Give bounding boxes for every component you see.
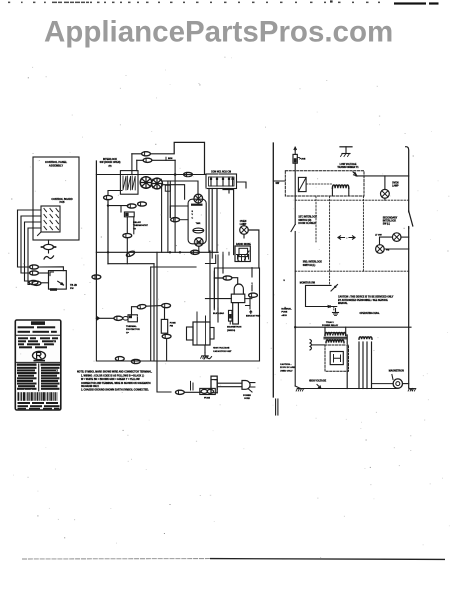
primary coil [325,333,346,336]
magnetron filament box [229,310,233,321]
wire top rail right [356,175,409,177]
coil top leads [332,181,348,189]
svg-text:FM: FM [170,326,173,328]
wire PCB row2 to bundle [21,216,41,273]
svg-text:1ST. INTERLOCK: 1ST. INTERLOCK [298,217,317,219]
wire HV top leads [197,312,206,322]
fuse F1 body [293,154,297,163]
wire circle2 right [384,248,409,250]
nameplate specs block [18,337,28,339]
HV rectifier dashed box [325,345,349,371]
wire H2 down to rail [166,339,168,362]
svg-text:EXHAUST FAN: EXHAUST FAN [246,315,261,318]
wire K2 run [137,159,175,161]
wire strip pin4 stub [228,189,230,194]
wire below fuse [294,163,296,224]
svg-text:ASSEMBLY: ASSEMBLY [49,164,63,168]
junction dot at A1 [174,173,177,176]
wire vertical x161 [161,185,163,253]
fuse right tick [297,157,299,159]
svg-text:OPERATING DIAG.: OPERATING DIAG. [360,312,380,315]
wire vertical x175 [174,160,176,252]
junction dot monitor bottom [329,305,331,307]
secondary drop wires [358,342,360,389]
wire short second lead [133,217,135,234]
svg-text:SWITCH (L): SWITCH (L) [303,265,316,267]
cord terminal fuse box [200,388,216,394]
wire rail y318 to protector [96,317,114,319]
dotted rail y200 [295,199,409,201]
wire drop to cord rail [157,361,171,392]
wire B rail junction [107,204,109,206]
wire G1 to fuse column [146,305,161,308]
ground left HV rail [296,389,304,392]
monitor switch loop [306,285,337,306]
svg-text:PCB: PCB [59,201,64,204]
nameplate table divider vertical [38,363,40,391]
wire main vertical A x96 [95,161,97,319]
wire hot lead arrow tip [294,147,296,150]
relay K diagonal [298,177,306,191]
magnetron tube [233,303,239,324]
wire protector up right [132,307,138,316]
svg-text:2X 5V DC ARE: 2X 5V DC ARE [280,366,295,369]
svg-text:(R): (R) [108,165,111,167]
scan header dot left [330,0,333,2]
connector oval F1 [114,316,123,320]
terminal box TB [49,271,67,290]
svg-text:LOW VOLTAGE: LOW VOLTAGE [340,163,357,166]
wire strip right leg down [237,182,247,188]
connector oval under timer on rail [191,250,200,254]
wire strip pin2 down [216,189,218,251]
wire magnetron to ground right [403,383,409,385]
wire strip pin1 down [211,189,213,259]
cavity box top-left step [151,266,196,268]
wire vertical x170 [169,181,171,218]
noise filter box [235,246,250,262]
cord conductor lines [217,383,242,387]
timer assembly body [188,199,206,244]
svg-text:MAGNETRON: MAGNETRON [389,370,404,373]
wire strip pin3 bend down [223,189,234,255]
HV cap right tab [210,328,214,340]
svg-text:C: C [192,217,194,219]
connector oval H1 [162,304,171,308]
wire timer bottom to rail252 [198,246,200,252]
magnetron body [231,294,245,303]
thermostat small box [124,212,134,217]
wire relay box to oval C3 [108,191,122,196]
svg-text:OVEN: OVEN [240,221,247,223]
svg-text:INTERLOCK: INTERLOCK [383,221,397,223]
bottom separator line [22,558,210,560]
fuse F1 inner blob [294,158,297,162]
wire lt sw to right rail [401,236,409,238]
wire motor rail lower [162,185,184,200]
wire K1 run [132,142,205,174]
connector oval pair D1 [127,204,136,208]
oven lamp left circle [240,226,249,235]
terminal box diagonal arrow [58,281,64,285]
svg-text:POWER: POWER [243,395,251,397]
svg-text:NOTE: SYMBOL MARK SHOWS WI: NOTE: SYMBOL MARK SHOWS WIRE AND CONNECT… [77,370,152,373]
primary coil leads [325,327,346,335]
wire cord mid [184,391,201,393]
wire strip pin0 down [208,189,210,253]
svg-text:TMR: TMR [196,223,201,225]
relay K box [298,177,306,191]
svg-text:CONTROL PANEL: CONTROL PANEL [45,160,68,164]
wire magnetron top bend [214,278,237,285]
HV rail arrow mark [317,385,321,389]
terminal pin 2 [216,177,218,186]
relay block box [120,171,138,195]
nameplate divider2 [15,361,61,363]
wire lamp to right rail [248,230,259,268]
junction dot monitor top [334,286,336,288]
control board corner lead [38,232,42,236]
control board PCB (hatched) [41,206,60,232]
junction dot rail252 b [169,251,171,253]
right page border lower tick 1 [275,399,277,415]
terminal box inner corner mark [50,272,54,276]
magnetron leads right [372,375,394,384]
control panel enclosure box [33,157,79,240]
strain relief [211,376,217,393]
junction arrow on A at 318 [96,316,100,321]
HV ground lead [204,345,206,353]
svg-text:MANUAL: MANUAL [338,302,348,305]
small connector box right of motors [165,185,170,191]
connector oval H2 [162,334,171,338]
bottom rail segment [110,360,151,362]
svg-text:TB JB: TB JB [70,284,77,287]
dashed control region box [285,171,364,196]
plug body [242,381,250,390]
wire vertical x157 upper [156,247,158,252]
svg-text:PROTECTOR: PROTECTOR [126,329,140,331]
connector J2 [30,271,39,275]
nameplate text line1 [18,326,34,328]
secondary right leads [358,341,372,345]
nameplate text line2 [18,331,30,333]
wire mid rail y252 [96,251,218,253]
wire into magnetron left [206,298,232,300]
wire J1 to terminal box top [38,267,63,271]
svg-text:OVEN: OVEN [392,183,399,185]
oven lamp right circle [381,189,390,198]
svg-text:FUSE: FUSE [170,322,176,324]
noise filter internals [238,255,249,260]
dashed vertical link1 [315,196,317,242]
svg-text:×: × [346,236,348,240]
connector oval left of timer [171,218,180,222]
HV rect inner box [330,352,343,365]
svg-text:BLK LEAD: BLK LEAD [213,312,224,315]
bottom HV rail [299,388,397,390]
door arrows [338,236,345,239]
secondary coil left [326,340,344,343]
fuse box inner oval 1 [201,389,207,393]
right main vertical with top hook [406,147,409,388]
svg-text:CONNECTOR AND TERMINAL WIRE: CONNECTOR AND TERMINAL WIRE IS SHOWN ON … [81,382,151,385]
dashed vertical link2 [329,196,331,285]
chassis ground top [340,147,352,157]
svg-text:SW: SW [276,183,281,185]
ground right HV [408,389,416,392]
wire PCB row4 to bundle [28,228,41,285]
svg-text:5: 5 [284,280,286,282]
wire A down to bottom rail [96,318,110,361]
right page left border [272,143,274,397]
slanted connector on link down [126,250,136,258]
svg-text:W = WHITE BR = BROWN GRN: W = WHITE BR = BROWN GRN = GREEN Y = YEL… [81,379,141,381]
wire col223 to cavity ticks [223,252,229,255]
wire oval down bracket [246,298,251,310]
label timer motor row [191,204,203,206]
HV capacitor body [193,322,210,345]
svg-text:FUSE: FUSE [300,159,306,161]
wire panel box bottom to keyboard connector [48,240,50,244]
svg-text:3RD. INTERLOCK: 3RD. INTERLOCK [303,262,323,264]
svg-text:AppliancePartsPros.com: AppliancePartsPros.com [44,16,393,49]
wire 3-symbol to dashed box [312,344,325,346]
plug prongs [249,383,255,392]
monitor loop bottom arrow [328,305,332,309]
svg-text:MONITOR SW: MONITOR SW [300,282,316,284]
wire PCB row1 to bundle [18,210,42,267]
wire top vertical x131 [131,154,133,175]
magnetron circle right [393,379,402,388]
wire top rail to switch strip [96,174,206,176]
connector oval R2 on bottom rail [131,359,140,363]
connector oval R1 on bottom rail [115,357,124,361]
lamp switch circle 2 [376,245,385,254]
connector J3 [29,280,38,284]
svg-text:RADIO NOISE: RADIO NOISE [236,243,251,246]
keyboard ribbon connector [42,244,56,253]
svg-text:THERMAL: THERMAL [126,325,137,328]
connector oval top K1 [142,152,151,156]
wire cavity top drop to oval [251,268,253,291]
svg-text:SWITCH (R): SWITCH (R) [298,220,311,222]
svg-text:LT SW: LT SW [375,234,383,236]
svg-text:BRN: BRN [168,158,173,160]
terminal pin 3 [222,177,224,186]
wire tick marks before fuse box [191,381,194,390]
connector oval E1 [123,234,132,238]
svg-text:CON NO1 NO2 CM: CON NO1 NO2 CM [211,172,231,174]
connector oval C3 [104,196,113,200]
terminal box bottom tab [50,288,57,291]
wire left into timer top [170,206,188,218]
wire J3 to terminal box [41,282,49,284]
svg-text:PW: PW [70,288,74,290]
timer bottom contact circle [195,238,204,247]
connector oval on top rail [184,172,193,176]
secondary coil right [359,337,372,339]
svg-text:SECONDARY: SECONDARY [383,216,398,219]
relay block hatch [123,176,126,190]
connector oval F2 small [123,317,128,321]
svg-text:HIGH VOLTAGE: HIGH VOLTAGE [309,379,327,382]
squiggle at cavity bottom [204,357,212,359]
nameplate table rows [17,367,37,369]
secondary interlock blade [406,213,413,227]
wire PCB row3 to bundle [25,222,42,281]
wire J2 to terminal box [38,272,48,274]
transformer coil winding [332,185,348,188]
wire strip columns to rail252 [212,251,217,252]
wire vertical x167 [167,181,169,252]
svg-text:CAUTION : THIS DEVICE IS TO: CAUTION : THIS DEVICE IS TO BE SERVICED … [338,295,394,298]
wire drop x157 from rail252 [156,252,158,361]
connector oval G1 [137,304,146,309]
dashed vertical link4 [362,196,364,271]
nameplate label outer border [15,320,61,410]
svg-text:POWER RELAY: POWER RELAY [322,324,339,327]
wire rail263 drop long [153,264,155,361]
wire link down from rail252 [123,256,140,264]
dashed drop to ground mid [333,307,335,310]
wire thermostat down to oval E1 [126,217,128,234]
svg-text:LAMP: LAMP [392,185,399,188]
fuse body rect [161,319,167,333]
connector J3b [32,281,41,285]
svg-text:FUSE: FUSE [204,397,210,399]
svg-text:FM: FM [386,250,389,252]
nameplate table header row [17,363,37,365]
scan header dark bar 1 [394,2,426,4]
wire stub tick [165,157,167,160]
wire cavity vertical 2 [213,271,215,309]
connector oval cord1 [176,390,185,394]
wire E1 down to rail263 [126,238,128,264]
terminal strip box [206,174,237,189]
fan motor M2 [152,178,163,189]
connector oval pair D2 [138,202,147,206]
1st interlock switch blade [291,224,295,231]
sec drop left [346,335,348,389]
svg-text:DOOR CLOSED: DOOR CLOSED [298,223,315,225]
svg-text:CAUTION :: CAUTION : [280,363,292,366]
ground symbol mid [333,309,339,316]
svg-text:+B15: +B15 [281,315,287,317]
svg-text:NOMINAL: NOMINAL [281,307,292,310]
svg-text:FUSE: FUSE [281,312,287,314]
wire mid rail y263 [108,263,154,265]
wire filament leads [230,299,252,324]
thermal protector box [128,315,137,322]
junction fuse rail [294,326,296,328]
wire bend above cavity [206,255,216,264]
antenna arrow symbol [250,311,252,314]
svg-text:TRIAC /: TRIAC / [326,321,334,324]
wire lt sw left leg [380,237,393,245]
svg-text:CORD: CORD [244,398,251,400]
timer top contact circle [194,194,203,203]
svg-text:V: V [192,214,194,216]
terminal pin 5 [232,177,234,186]
connector J1 [30,265,39,269]
dashed rail y271 [295,270,409,272]
antenna/cap symbol 3 [310,340,312,351]
nameplate title bar [31,321,45,325]
svg-text:1. WIRING : COLOR CODE IS: 1. WIRING : COLOR CODE IS AS FOLLOWS B =… [81,375,144,378]
terminal strip inner box [209,177,235,186]
fan motor M1 [140,177,152,189]
svg-text:MAGNETRON: MAGNETRON [227,326,242,329]
svg-text:SW (L): SW (L) [383,224,391,226]
terminal pin 1 [210,177,212,186]
svg-text:(2M210): (2M210) [227,330,235,332]
dotted link relay to coil [306,183,332,185]
svg-text:2. CHASSIS GROUND SHOWN EA: 2. CHASSIS GROUND SHOWN EARTH SYMBOL CON… [81,388,149,391]
noise filter inner rect [239,248,248,256]
wire oval-timer [180,219,189,221]
timer mid contact oval [193,228,204,233]
svg-text:TP: TP [126,332,129,334]
svg-text:SW (DOOR OPEN): SW (DOOR OPEN) [100,161,121,164]
junction dot rail252 c [179,251,181,253]
scan header tick marks [8,2,10,3]
wire hot lead top [294,147,296,154]
nameplate divider1 [15,334,61,336]
ground HV [201,353,209,359]
svg-text:BY AUTHORIZED PERSONNEL /: BY AUTHORIZED PERSONNEL / SEE SERVICE [338,299,388,302]
connector oval inline on vertical A [92,275,101,279]
connector oval on magnetron top [223,276,232,280]
junction dot rail252 a [107,251,109,253]
wire thermostat top lead [120,206,122,212]
connector oval top K2 [143,158,152,162]
wire cavity vertical 3 [217,255,219,310]
coil legs [332,188,348,196]
wire lamp leads [243,224,245,239]
ribbon cable squiggle [44,256,54,259]
HV cap inner lines [197,322,206,345]
wire main vertical B x108 [107,200,109,264]
transformer core lines [324,336,347,338]
nameplate barcode [18,392,20,401]
wire cavity vertical 4 [222,255,224,273]
terminal pin 4 [228,177,230,186]
wire below 1st interlock [294,232,296,328]
nameplate UR logo [33,351,46,359]
svg-text:CAPACITOR UNIT: CAPACITOR UNIT [213,350,232,353]
HV cap left tab [187,327,194,340]
svg-text:S: S [192,211,194,213]
svg-text:THERMOSTAT: THERMOSTAT [133,224,149,227]
svg-text:TRANSFORMER T1: TRANSFORMER T1 [337,166,359,169]
magnetron dome [234,284,243,294]
oven cavity box [151,267,260,361]
wire cavity top connectors [238,255,245,261]
connector oval right of magnetron [249,293,258,297]
wire K2 left vertical [136,160,138,170]
HV diode symbol inside [334,355,341,363]
primary rail [297,326,411,328]
right page border lower tick 2 [277,399,279,415]
wire cavity vertical 1 [209,251,211,322]
nameplate logo caption [34,360,46,362]
wire motor rail upper [162,181,198,195]
lamp switch circle 1 [392,233,401,242]
wire left rail drop [295,327,300,388]
monitor switch blade [331,285,338,292]
wire cross rail y205 [108,205,128,207]
